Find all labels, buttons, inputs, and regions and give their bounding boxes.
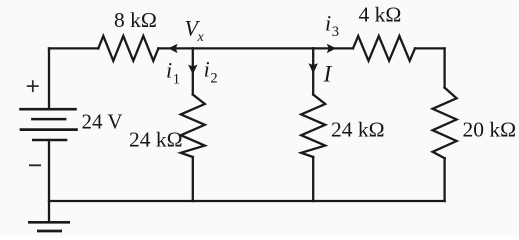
label current i2 — [204, 57, 218, 87]
wire node Vx to node B — [193, 47, 313, 49]
resistor R5 20 kOhm (vertical zigzag, right rail) — [433, 88, 457, 159]
wire left rail upper (to battery) — [48, 48, 50, 109]
wire branch 2 lower — [312, 157, 314, 201]
svg-text:4 kΩ: 4 kΩ — [359, 2, 402, 26]
current arrow i1 (left-pointing arrowhead on top wire) — [168, 44, 177, 53]
battery V1 24 V plate 1 (long, +) — [19, 108, 77, 111]
ground symbol line 2 — [37, 230, 62, 233]
label current i3 — [325, 10, 339, 40]
battery V1 plate 3 (long) — [20, 128, 78, 131]
resistor R1 8 kOhm (horizontal zigzag) — [98, 36, 158, 61]
current arrow i2 (down arrowhead on branch 1) — [188, 65, 197, 75]
label current i1 — [166, 58, 180, 88]
svg-text:24 V: 24 V — [82, 110, 123, 134]
wire branch 2 upper — [312, 48, 314, 94]
ground symbol line 1 — [28, 221, 70, 224]
svg-text:x: x — [197, 30, 205, 45]
svg-text:2: 2 — [210, 70, 217, 86]
battery plus sign — [27, 80, 39, 92]
resistor R2 24 kOhm (vertical zigzag, branch 1) — [181, 95, 205, 158]
battery V1 plate 2 (short) — [31, 118, 66, 121]
current arrow i3 (right-pointing arrowhead on top wire) — [327, 44, 336, 53]
node Vx label — [185, 15, 205, 45]
svg-text:8 kΩ: 8 kΩ — [114, 8, 157, 32]
svg-text:i: i — [166, 58, 172, 83]
wire node B to R3 — [313, 47, 353, 49]
svg-text:20 kΩ: 20 kΩ — [463, 118, 517, 142]
resistor R3 4 kOhm (horizontal zigzag) — [353, 36, 415, 61]
battery V1 plate 4 (short, -) — [32, 139, 67, 142]
svg-text:I: I — [323, 61, 333, 87]
svg-text:i: i — [204, 57, 210, 82]
wire right rail lower — [443, 158, 445, 201]
svg-text:1: 1 — [173, 71, 180, 87]
svg-text:24 kΩ: 24 kΩ — [129, 128, 183, 152]
svg-text:i: i — [325, 10, 331, 35]
wire branch 1 lower — [192, 157, 194, 201]
wire left rail lower (battery to ground) — [48, 140, 50, 222]
svg-text:24 kΩ: 24 kΩ — [331, 118, 385, 142]
wire top-left segment — [49, 47, 98, 49]
wire R3 to top-right corner — [415, 47, 445, 49]
resistor R4 24 kOhm (vertical zigzag, branch 2) — [301, 95, 325, 158]
svg-text:3: 3 — [332, 24, 339, 40]
battery minus sign — [29, 164, 41, 166]
wire bottom rail — [49, 200, 445, 202]
wire branch 1 upper — [192, 48, 194, 94]
current arrow I (down arrowhead on branch 2) — [309, 63, 318, 73]
wire from R1 to node Vx — [158, 47, 192, 49]
wire right rail upper — [443, 48, 445, 87]
